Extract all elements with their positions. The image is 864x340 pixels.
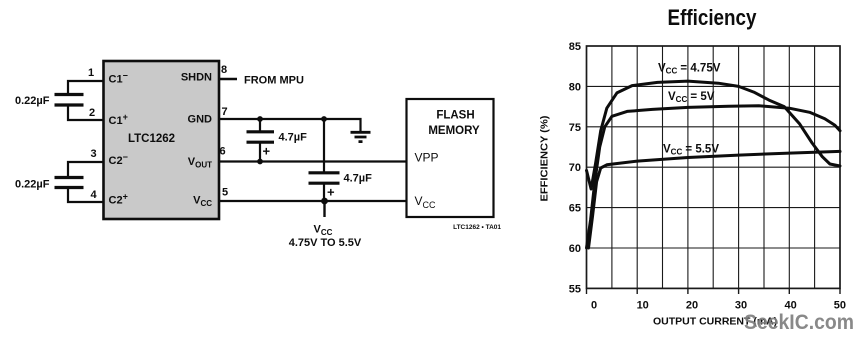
x axis ticks [587,288,841,294]
svg-text:10: 10 [637,300,649,312]
svg-text:70: 70 [569,162,581,174]
capacitor C1 plates [55,95,84,106]
capacitor C2 plates [55,178,84,188]
svg-text:2: 2 [89,107,95,119]
svg-text:FROM MPU: FROM MPU [244,75,304,87]
IC U1 LTC1262 body [104,61,220,219]
wire VCC input stub [323,201,325,217]
svg-text:EFFICIENCY (%): EFFICIENCY (%) [540,116,551,202]
svg-text:MEMORY: MEMORY [428,125,480,137]
svg-text:VCC = 5V: VCC = 5V [668,91,715,104]
svg-text:20: 20 [686,300,698,312]
curve VCC=4.75V [587,81,841,189]
svg-text:+: + [327,185,335,200]
svg-text:LTC1262: LTC1262 [128,133,175,145]
wire pin3 to C2 top [68,162,104,176]
svg-text:GND: GND [188,114,213,126]
svg-text:1: 1 [88,67,94,79]
svg-text:Efficiency: Efficiency [668,5,758,30]
svg-text:5: 5 [222,187,228,199]
svg-text:80: 80 [569,81,581,93]
svg-text:50: 50 [834,300,846,312]
svg-text:LTC1262 • TA01: LTC1262 • TA01 [453,224,501,231]
svg-text:FLASH: FLASH [436,110,474,122]
wire GND branch down to C4 [323,119,325,172]
chart gridlines [587,46,841,288]
y axis tick labels [569,41,581,295]
svg-text:4: 4 [90,189,97,201]
curve VCC=5.5V [589,151,841,248]
svg-text:65: 65 [569,203,581,215]
junction GND/C4 branch [321,116,327,122]
wire pin5 VCC to flash [219,200,407,202]
svg-text:SHDN: SHDN [181,72,212,84]
svg-text:40: 40 [784,300,796,312]
svg-text:30: 30 [735,300,747,312]
wire C2 bottom to pin4 [68,189,104,202]
capacitor C3 plates [247,132,275,142]
wire C3 top lead [259,119,261,131]
svg-text:4.7µF: 4.7µF [344,173,373,185]
svg-text:4.75V TO 5.5V: 4.75V TO 5.5V [289,237,362,249]
curve VCC=5V [587,106,841,248]
wire pin7 GND net [219,119,361,131]
svg-text:55: 55 [569,283,581,295]
junction C3/VOUT [257,159,263,165]
svg-text:VPP: VPP [415,151,439,165]
svg-text:8: 8 [221,64,227,76]
junction GND/C3 [257,116,263,122]
svg-text:3: 3 [90,148,96,160]
svg-text:SeekIC.com: SeekIC.com [744,311,854,334]
x axis tick labels [591,300,846,312]
svg-text:60: 60 [569,243,581,255]
wire C3 bottom lead [259,144,261,162]
svg-text:75: 75 [569,122,581,134]
wire pin1 to C1 top [68,81,104,93]
ground [351,132,371,141]
svg-text:85: 85 [569,41,581,53]
svg-text:0.22µF: 0.22µF [15,95,50,107]
flash memory U2 body [407,99,494,217]
svg-text:6: 6 [219,146,225,158]
wire pin6 VOUT to VPP [219,160,407,162]
svg-text:4.7µF: 4.7µF [279,132,308,144]
junction VCC input [321,198,328,205]
chart frame [587,46,841,288]
svg-text:0.22µF: 0.22µF [15,179,50,191]
svg-text:+: + [263,144,271,159]
svg-text:7: 7 [221,106,227,118]
wire C4 bottom lead [323,185,325,202]
wire C1 bottom to pin2 [68,107,104,121]
capacitor C4 plates [309,173,340,183]
wire pin8 SHDN stub [219,78,237,80]
svg-text:0: 0 [591,300,597,312]
